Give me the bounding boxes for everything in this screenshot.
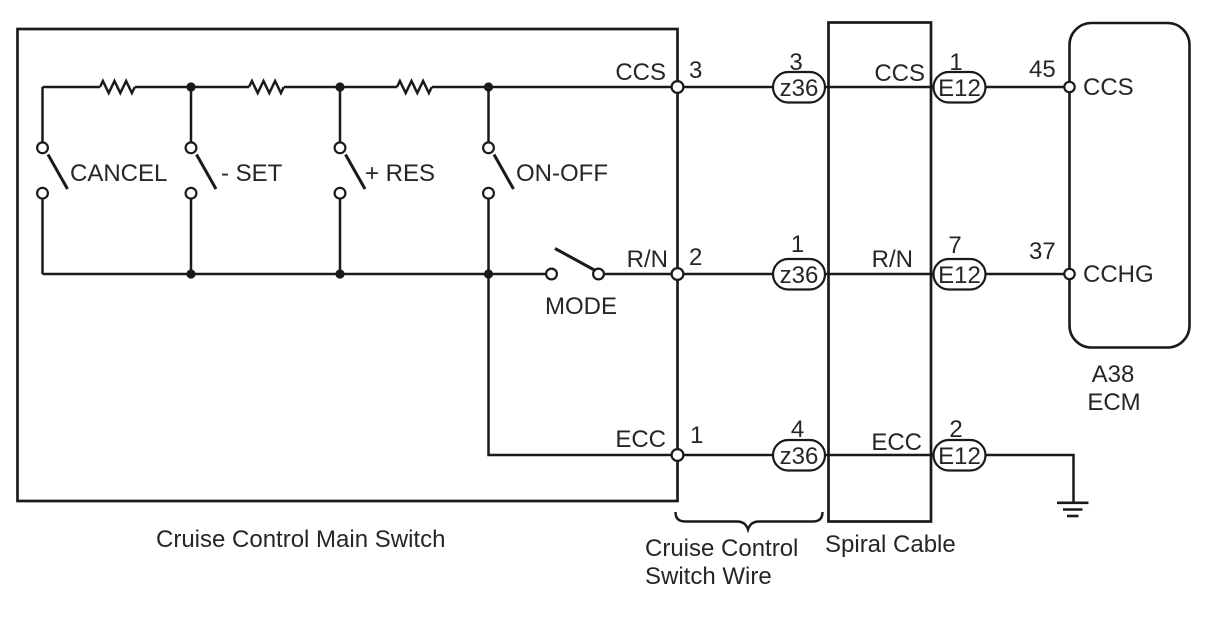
- switch ON-OFF blade: [494, 155, 514, 190]
- spiral cable box: [829, 23, 932, 522]
- junction dot bottom ON-OFF: [484, 269, 493, 278]
- svg-text:Spiral Cable: Spiral Cable: [825, 531, 956, 558]
- connector E12 row2: [934, 259, 986, 290]
- svg-text:1: 1: [690, 422, 703, 449]
- svg-text:- SET: - SET: [221, 160, 283, 187]
- brace cruise control switch wire: [676, 512, 823, 530]
- junction dot bottom SET: [186, 269, 195, 278]
- switch SET blade: [197, 155, 217, 190]
- svg-text:4: 4: [791, 416, 804, 443]
- connector E12 row1: [934, 72, 986, 103]
- switch ON-OFF bottom contact: [483, 188, 494, 199]
- svg-text:Switch Wire: Switch Wire: [645, 563, 772, 590]
- svg-text:3: 3: [689, 57, 702, 84]
- wire: row1 E12 to ECM pin 45: [985, 86, 1064, 89]
- terminal 3 CCS on main switch: [672, 81, 684, 93]
- svg-text:2: 2: [949, 416, 962, 443]
- ECM box A38: [1070, 23, 1190, 348]
- wire: row2 from R/N terminal to z36: [684, 273, 774, 276]
- svg-text:ECC: ECC: [871, 429, 922, 456]
- svg-text:CCHG: CCHG: [1083, 261, 1154, 288]
- wire: RES branch vertical: [339, 87, 342, 274]
- svg-text:E12: E12: [938, 262, 981, 289]
- svg-text:2: 2: [689, 244, 702, 271]
- resistor between SET and RES: [249, 81, 284, 93]
- wire: bottom bus row2 inside main switch (left of MODE): [43, 273, 547, 276]
- svg-text:CCS: CCS: [615, 59, 666, 86]
- wire: top bus row1 inside main switch: [43, 86, 678, 89]
- wire: row3 E12 to ground drop: [985, 455, 1074, 502]
- wire: ON-OFF branch vertical + ECC run: [489, 87, 678, 455]
- terminal 1 ECC on main switch: [672, 449, 684, 461]
- switch ON-OFF top contact: [483, 142, 494, 153]
- svg-text:3: 3: [789, 49, 802, 76]
- svg-text:R/N: R/N: [627, 246, 668, 273]
- switch SET top contact: [186, 142, 197, 153]
- svg-text:Cruise Control: Cruise Control: [645, 535, 798, 562]
- wire: row3 from ECC terminal to z36: [684, 454, 774, 457]
- svg-text:CCS: CCS: [1083, 74, 1134, 101]
- junction dot top ON-OFF: [484, 82, 493, 91]
- svg-text:37: 37: [1029, 238, 1056, 265]
- svg-text:R/N: R/N: [872, 246, 913, 273]
- svg-text:E12: E12: [938, 443, 981, 470]
- svg-text:A38: A38: [1092, 361, 1135, 388]
- svg-text:MODE: MODE: [545, 293, 617, 320]
- wire: row2 z36 to E12 through spiral cable: [825, 273, 934, 276]
- svg-text:z36: z36: [780, 75, 819, 102]
- svg-text:E12: E12: [938, 75, 981, 102]
- resistor between RES and ON-OFF: [397, 81, 432, 93]
- svg-text:45: 45: [1029, 56, 1056, 83]
- switch RES bottom contact: [335, 188, 346, 199]
- connector z36 row1: [773, 72, 825, 103]
- svg-text:CCS: CCS: [874, 60, 925, 87]
- connector z36 row3: [773, 440, 825, 471]
- junction dot bottom RES: [335, 269, 344, 278]
- wire: CANCEL branch vertical: [41, 87, 44, 274]
- svg-text:+ RES: + RES: [365, 160, 435, 187]
- switch RES blade: [346, 155, 366, 190]
- svg-text:z36: z36: [780, 443, 819, 470]
- wire: SET branch vertical: [190, 87, 193, 274]
- svg-text:1: 1: [949, 49, 962, 76]
- terminal 2 R/N on main switch: [672, 268, 684, 280]
- ECM pin 45 circle: [1064, 82, 1074, 92]
- svg-text:Cruise Control Main Switch: Cruise Control Main Switch: [156, 526, 445, 553]
- switch RES top contact: [335, 142, 346, 153]
- svg-text:CANCEL: CANCEL: [70, 160, 167, 187]
- wire: row1 z36 to E12 through spiral cable: [825, 86, 934, 89]
- svg-text:ECC: ECC: [615, 426, 666, 453]
- switch MODE right contact: [593, 269, 604, 280]
- switch MODE left contact: [546, 269, 557, 280]
- svg-text:1: 1: [791, 231, 804, 258]
- connector E12 row3: [934, 440, 986, 471]
- cruise control main switch box: [18, 29, 678, 501]
- junction dot top RES: [335, 82, 344, 91]
- connector z36 row2: [773, 259, 825, 290]
- svg-text:7: 7: [948, 232, 961, 259]
- svg-text:ON-OFF: ON-OFF: [516, 160, 608, 187]
- switch SET bottom contact: [186, 188, 197, 199]
- switch CANCEL blade: [48, 155, 68, 190]
- wire: row2 E12 to ECM pin 37: [985, 273, 1064, 276]
- resistor between CANCEL and SET: [100, 81, 135, 93]
- svg-text:ECM: ECM: [1087, 389, 1140, 416]
- wire: row1 from CCS terminal to z36: [684, 86, 774, 89]
- svg-text:z36: z36: [780, 262, 819, 289]
- switch MODE blade: [555, 249, 598, 273]
- junction dot top SET: [186, 82, 195, 91]
- ECM pin 37 circle: [1064, 269, 1074, 279]
- ground symbol: [1057, 503, 1089, 516]
- wire: row2 MODE right segment: [604, 273, 678, 276]
- switch CANCEL bottom contact: [37, 188, 48, 199]
- switch CANCEL top contact: [37, 142, 48, 153]
- wire: row3 z36 to E12 through spiral cable: [825, 454, 934, 457]
